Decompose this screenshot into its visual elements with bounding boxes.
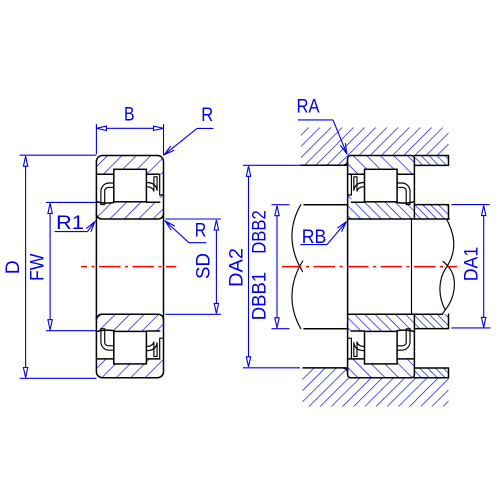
svg-text:DBB2: DBB2 [249, 210, 271, 254]
outer ring bore lines top [348, 173, 415, 175]
outer ring bore lines top [96, 173, 159, 175]
svg-text:RB: RB [302, 226, 327, 248]
DA2 extension lines [243, 165, 301, 367]
raceway line bottom (right view) [351, 330, 414, 331]
shaft shoulder lines [304, 205, 348, 329]
FW extension lines [46, 202, 96, 330]
roller top [114, 169, 147, 202]
RA leader [298, 119, 333, 121]
housing hatch top [301, 128, 449, 166]
bearing outline [96, 156, 163, 378]
SD extension lines [166, 219, 221, 314]
shaft break right [440, 219, 454, 314]
roller top (right view) [365, 169, 398, 202]
cage bottom-left (right view) [354, 342, 365, 356]
housing fillet arcs RA [342, 160, 347, 373]
cage bottom-left [101, 329, 114, 351]
DBB dimension line [276, 206, 278, 328]
inner ring rib top (right view) [348, 174, 352, 195]
cage top-right [146, 177, 157, 191]
raceway line top [96, 202, 159, 203]
DA2 dimension line [248, 166, 250, 366]
outer ring bottom hatch [348, 359, 415, 378]
roller bottom [114, 331, 147, 364]
svg-text:B: B [124, 104, 135, 126]
shaft shoulder face [347, 219, 349, 314]
svg-text:DBB1: DBB1 [249, 272, 271, 321]
raceway line top (right view) [351, 202, 414, 203]
svg-text:R1: R1 [56, 212, 84, 234]
inner ring bottom section hatch [96, 314, 163, 338]
inner ring rib top [160, 174, 164, 195]
inner ring top hatch [348, 195, 415, 219]
shaft break left [292, 205, 303, 329]
inner ring rib bottom [160, 338, 164, 359]
outer ring bore lines bottom [96, 358, 159, 360]
svg-text:R: R [201, 104, 213, 126]
svg-text:SD: SD [193, 253, 215, 279]
B dimension line [96, 127, 163, 129]
outer ring top hatch [348, 156, 415, 175]
raceway line bottom [96, 330, 159, 331]
inner ring top section hatch [96, 195, 163, 219]
SD dimension line [215, 220, 217, 313]
cover strip bottom [414, 368, 448, 378]
spacer top outline [414, 205, 448, 219]
cage top-left [101, 183, 114, 205]
cover strip top [414, 156, 448, 166]
FW dimension line [49, 203, 51, 329]
right view labels [226, 96, 483, 321]
R top leader [197, 127, 214, 129]
inner ring rib bottom (right view) [348, 338, 352, 359]
roller bottom (right view) [365, 331, 398, 364]
cage top-left (right view) [354, 177, 365, 191]
svg-text:D: D [2, 260, 24, 274]
shaft seat end edge [411, 219, 413, 314]
housing bore lines [301, 165, 348, 368]
cage bottom-right [146, 342, 157, 356]
svg-text:RA: RA [297, 96, 320, 118]
centre line right [282, 266, 457, 268]
inner ring bottom hatch [348, 314, 415, 338]
cover strip top outline [414, 156, 448, 166]
cage top-right (right view) [397, 183, 410, 205]
shaft seat lines right of bearing [414, 219, 449, 314]
bearing outline top (right view) [348, 156, 415, 220]
D extension lines [20, 155, 97, 378]
R right leader [189, 242, 207, 244]
DA1 extension lines [451, 205, 490, 328]
svg-text:R: R [195, 220, 207, 242]
svg-text:DA2: DA2 [226, 248, 248, 287]
svg-text:DA1: DA1 [461, 247, 483, 282]
RB leader [300, 244, 327, 246]
outer ring top section hatch [96, 156, 163, 175]
DBB extension lines [272, 205, 290, 329]
bore silhouette lines [96, 214, 163, 320]
outer ring bottom section hatch [96, 359, 163, 378]
D dimension line [25, 156, 27, 377]
cover strip bottom outline [414, 368, 448, 378]
spacer bottom outline [414, 314, 448, 328]
DA1 dimension line [483, 206, 485, 328]
left view labels [2, 104, 215, 282]
outer ring bore lines bottom [348, 358, 415, 360]
cage bottom-right (right view) [397, 329, 410, 351]
housing hatch bottom [303, 368, 449, 407]
centre line left [81, 266, 176, 268]
R1 leader [55, 231, 88, 233]
B extension lines [96, 124, 163, 155]
spacer strip top [414, 205, 448, 219]
spacer strip bottom [414, 314, 448, 328]
svg-text:FW: FW [27, 253, 49, 281]
bearing outline bottom (right view) [348, 314, 415, 378]
